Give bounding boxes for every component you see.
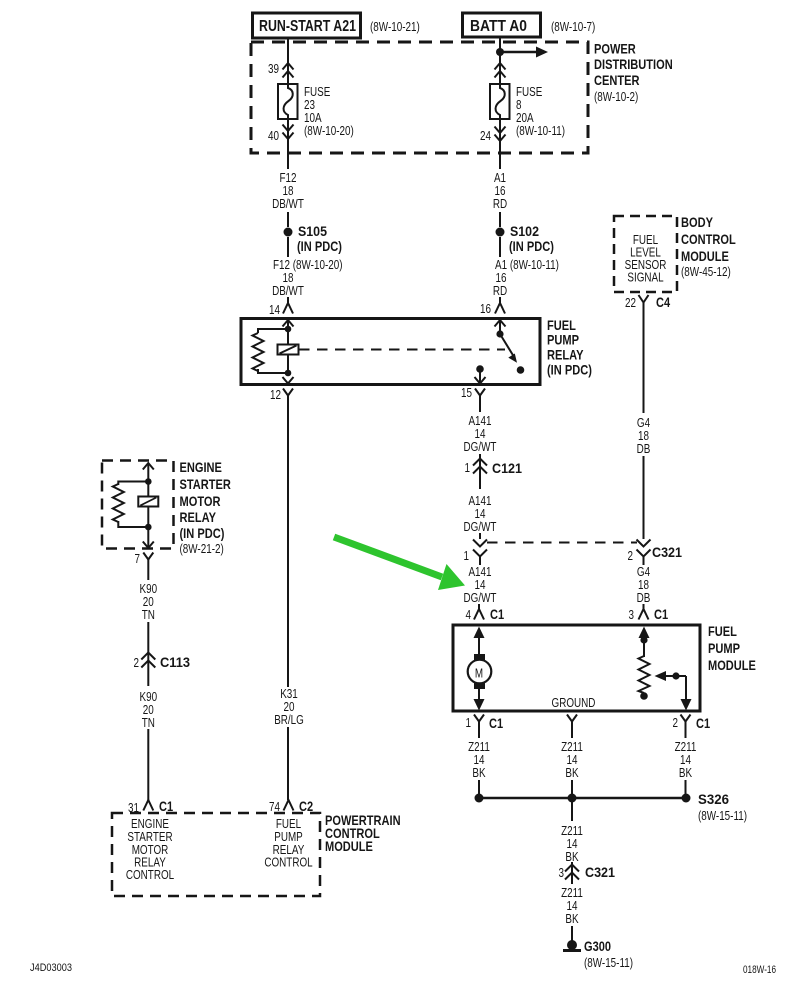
svg-text:20: 20	[284, 700, 295, 714]
svg-text:20: 20	[143, 703, 154, 717]
wire segment	[287, 212, 289, 227]
wire segment	[478, 780, 480, 798]
wire segment	[643, 456, 645, 539]
svg-text:14: 14	[474, 753, 485, 767]
svg-text:FUSE: FUSE	[304, 85, 330, 99]
svg-text:18: 18	[283, 271, 294, 285]
connector C321 pin 3	[559, 862, 616, 884]
wire label A1 16 RD	[493, 171, 507, 211]
svg-text:(8W-10-11): (8W-10-11)	[516, 124, 565, 138]
svg-text:22: 22	[625, 296, 636, 310]
svg-text:BK: BK	[565, 912, 579, 926]
pin 40 connector chevrons	[268, 125, 294, 144]
wire label G4 18 DB	[637, 565, 651, 605]
svg-text:(8W-21-2): (8W-21-2)	[180, 542, 224, 556]
label FUEL PUMP MODULE	[708, 623, 756, 673]
svg-text:BATT A0: BATT A0	[470, 18, 527, 35]
svg-text:ENGINE: ENGINE	[180, 459, 222, 475]
svg-text:C1: C1	[696, 715, 710, 731]
wire segment to ground	[571, 926, 573, 941]
center ground fork below module	[567, 715, 577, 732]
junction dot on BATT feed	[496, 48, 504, 56]
pin 15 chevron inside relay	[475, 377, 486, 384]
svg-text:F12 (8W-10-20): F12 (8W-10-20)	[273, 258, 343, 272]
pin 1 fork below module	[466, 715, 504, 732]
wire label K90 20 TN	[140, 582, 158, 622]
svg-text:23: 23	[304, 98, 315, 112]
svg-text:16: 16	[480, 302, 491, 316]
svg-text:10A: 10A	[304, 111, 322, 125]
wire label A141 14 DG/WT	[464, 565, 497, 605]
wire segment below splice	[571, 798, 573, 821]
wire K90 segment	[147, 568, 149, 580]
svg-text:16: 16	[495, 184, 506, 198]
svg-text:14: 14	[475, 507, 486, 521]
svg-text:1: 1	[464, 549, 470, 563]
svg-text:BR/LG: BR/LG	[274, 713, 304, 727]
svg-text:DB/WT: DB/WT	[272, 284, 304, 298]
svg-text:BK: BK	[472, 766, 486, 780]
relay switch arm with arrowhead	[500, 334, 517, 363]
svg-text:1: 1	[465, 461, 471, 475]
pin 4 fork above module	[466, 604, 505, 622]
svg-text:18: 18	[638, 578, 649, 592]
pin 15 dot	[476, 365, 484, 373]
svg-text:STARTER: STARTER	[180, 476, 231, 492]
svg-text:DB: DB	[637, 591, 651, 605]
wiper junction dot	[672, 672, 679, 679]
svg-text:FUEL: FUEL	[276, 817, 301, 831]
wire segment to pin 16	[499, 297, 501, 303]
wire segment	[685, 780, 687, 798]
junction dot bottom	[145, 524, 152, 531]
label ENGINE STARTER MOTOR RELAY CONTROL	[126, 817, 174, 882]
svg-text:DISTRIBUTION: DISTRIBUTION	[594, 56, 673, 72]
junction dot center	[568, 794, 577, 803]
svg-text:(8W-10-2): (8W-10-2)	[594, 90, 638, 104]
label BODY CONTROL MODULE	[681, 214, 736, 279]
fuel pump module box	[453, 625, 700, 711]
green annotation arrow	[334, 537, 465, 590]
pin 16 connector fork	[480, 302, 505, 316]
relay coil branch wire	[287, 320, 289, 373]
relay resistor (parallel with coil)	[253, 329, 289, 373]
svg-text:Z211: Z211	[675, 740, 697, 754]
svg-text:20: 20	[143, 595, 154, 609]
wire segment	[479, 533, 481, 539]
svg-text:(8W-15-11): (8W-15-11)	[698, 809, 747, 823]
wire segment to pin 31	[147, 729, 149, 800]
relay switch pivot dot	[496, 330, 503, 337]
wire label G4 18 DB	[637, 416, 651, 456]
svg-text:BK: BK	[679, 766, 693, 780]
svg-text:C1: C1	[489, 715, 503, 731]
svg-text:C321: C321	[652, 544, 682, 560]
svg-text:(8W-15-11): (8W-15-11)	[584, 956, 633, 970]
sensor wiper arrow	[655, 671, 687, 681]
svg-text:8: 8	[516, 98, 522, 112]
svg-text:A1 (8W-10-11): A1 (8W-10-11)	[495, 258, 559, 272]
connector C321 pin 2	[628, 540, 683, 566]
svg-text:MOTOR: MOTOR	[180, 493, 221, 509]
svg-text:RD: RD	[493, 284, 507, 298]
svg-text:DB: DB	[637, 442, 651, 456]
svg-text:14: 14	[475, 427, 486, 441]
wire segment	[147, 622, 149, 686]
wire label Z211 14 BK (left)	[468, 740, 490, 780]
svg-text:FUEL: FUEL	[708, 623, 737, 639]
svg-text:C113: C113	[160, 654, 190, 670]
svg-text:RD: RD	[493, 197, 507, 211]
svg-text:(8W-10-20): (8W-10-20)	[304, 124, 354, 138]
fuel pump motor M1	[468, 654, 492, 689]
wire segment	[287, 237, 289, 257]
svg-text:STARTER: STARTER	[127, 830, 172, 844]
wire segment right Z211	[685, 731, 687, 738]
svg-text:BK: BK	[565, 850, 579, 864]
svg-text:16: 16	[496, 271, 507, 285]
BATT feed connector chevrons	[495, 63, 506, 78]
pin 39 connector chevrons	[268, 62, 294, 78]
engine starter motor relay dashed box	[102, 461, 174, 549]
svg-text:TN: TN	[142, 608, 155, 622]
starter relay coil branch wire	[147, 463, 149, 527]
splice S105	[284, 223, 342, 254]
fuse 23	[278, 84, 298, 119]
svg-text:18: 18	[638, 429, 649, 443]
label FUEL LEVEL SENSOR SIGNAL	[625, 233, 667, 285]
svg-text:Z211: Z211	[561, 824, 583, 838]
dashed actuator line	[299, 349, 505, 351]
wire label Z211 14 BK (right)	[675, 740, 697, 780]
svg-text:BODY: BODY	[681, 214, 714, 230]
wiper return wire with down arrow	[681, 676, 692, 711]
wire from RUN-START A21 into PDC	[287, 38, 289, 84]
svg-text:3: 3	[559, 866, 565, 880]
svg-text:2: 2	[628, 549, 634, 563]
svg-text:(8W-10-7): (8W-10-7)	[551, 20, 595, 34]
svg-text:J4D03003: J4D03003	[30, 962, 72, 974]
ground bus wire	[479, 797, 686, 800]
svg-text:F12: F12	[280, 171, 297, 185]
svg-text:RELAY: RELAY	[180, 509, 217, 525]
pin 14 connector fork	[269, 303, 293, 317]
pin 14 chevron inside relay	[283, 320, 294, 327]
svg-text:40: 40	[268, 129, 279, 143]
svg-text:Z211: Z211	[561, 740, 583, 754]
starter relay resistor	[113, 482, 149, 528]
junction dot left	[475, 794, 484, 803]
svg-text:15: 15	[461, 386, 472, 400]
svg-text:PUMP: PUMP	[274, 830, 303, 844]
svg-text:(8W-10-21): (8W-10-21)	[370, 20, 420, 34]
svg-text:3: 3	[629, 608, 635, 622]
svg-text:MODULE: MODULE	[681, 248, 729, 264]
powertrain control module dashed box	[112, 813, 320, 896]
svg-text:2: 2	[673, 716, 679, 730]
svg-text:(IN PDC): (IN PDC)	[509, 238, 554, 254]
svg-text:DG/WT: DG/WT	[464, 591, 497, 605]
wire from BATT A0 into PDC	[499, 36, 501, 84]
body control module dashed box	[614, 216, 677, 292]
power distribution center dashed box	[251, 42, 588, 153]
wire segment	[499, 237, 501, 257]
dashed connector line C321	[487, 542, 637, 544]
svg-text:S326: S326	[698, 791, 729, 807]
label ENGINE STARTER MOTOR RELAY (IN PDC) (8W-21-2)	[180, 459, 231, 556]
wire label F12 18 DB/WT	[272, 171, 304, 211]
pin 7 fork below relay	[135, 552, 154, 568]
svg-text:S105: S105	[298, 223, 327, 239]
svg-text:(IN PDC): (IN PDC)	[180, 525, 225, 541]
label FUEL PUMP RELAY CONTROL	[264, 817, 312, 870]
svg-text:CONTROL: CONTROL	[681, 231, 736, 247]
svg-text:GROUND: GROUND	[552, 696, 596, 710]
label FUSE 23 10A (8W-10-20)	[304, 85, 354, 138]
svg-text:2: 2	[134, 656, 140, 670]
svg-text:7: 7	[135, 552, 141, 566]
svg-text:K31: K31	[280, 687, 298, 701]
pump feed wire with up arrow	[474, 627, 485, 655]
wire label Z211 14 BK	[561, 824, 583, 864]
svg-text:A141: A141	[468, 565, 491, 579]
wire A141 from pin 15 down	[479, 404, 481, 412]
wire label Z211 14 BK	[561, 886, 583, 926]
connector C121 pin 1	[465, 459, 523, 477]
svg-text:C1: C1	[159, 798, 173, 814]
splice S326	[682, 791, 748, 823]
svg-text:A141: A141	[468, 414, 491, 428]
svg-text:(8W-45-12): (8W-45-12)	[681, 265, 731, 279]
pin 3 fork above module	[629, 604, 669, 622]
wire segment	[499, 212, 501, 227]
wire G4 from pin 22 down	[643, 311, 645, 413]
starter relay coil symbol	[138, 497, 158, 507]
wire segment to pin 74	[287, 727, 289, 800]
svg-text:TN: TN	[142, 716, 155, 730]
connector C113 pin 2	[134, 653, 191, 671]
svg-text:DG/WT: DG/WT	[464, 520, 497, 534]
starter relay feed chevron	[143, 463, 154, 470]
svg-text:C1: C1	[490, 606, 504, 622]
fuse 8	[490, 84, 510, 119]
wire label A1 (8W-10-11) 16 RD	[493, 258, 559, 298]
svg-text:24: 24	[480, 129, 491, 143]
svg-text:RUN-START A21: RUN-START A21	[259, 18, 356, 35]
svg-text:(IN PDC): (IN PDC)	[547, 362, 592, 378]
svg-text:18: 18	[283, 184, 294, 198]
junction dot top	[145, 478, 152, 485]
splice S102	[496, 223, 554, 254]
svg-text:DG/WT: DG/WT	[464, 440, 497, 454]
arrow to right from BATT feed	[500, 47, 548, 58]
svg-text:14: 14	[269, 303, 280, 317]
wire segment to pin 14	[287, 297, 289, 303]
svg-text:MODULE: MODULE	[325, 838, 373, 854]
svg-text:C4: C4	[656, 294, 670, 310]
wire K31 from pin 12 down	[287, 404, 289, 687]
svg-text:S102: S102	[510, 223, 539, 239]
svg-text:018W-16: 018W-16	[743, 964, 776, 976]
svg-text:12: 12	[270, 388, 281, 402]
pin 24 connector chevrons	[480, 127, 506, 144]
pin 12 chevron inside relay	[283, 377, 294, 384]
pin 15 wire	[479, 369, 481, 384]
level sensor feed wire with up arrow	[639, 627, 650, 658]
pin 74 fork above PCM	[269, 798, 313, 814]
relay switch contact dot	[517, 366, 525, 374]
svg-text:4: 4	[466, 608, 472, 622]
svg-text:39: 39	[268, 62, 279, 76]
pin 2 fork below module	[673, 715, 711, 732]
pump return wire with down arrow	[474, 689, 485, 711]
wire label A141 14 DG/WT	[464, 494, 497, 534]
wire F12 segment below PDC	[287, 119, 289, 169]
junction dot top of coil	[285, 326, 292, 333]
wire segment left Z211	[478, 731, 480, 738]
wire label K31 20 BR/LG	[274, 687, 304, 727]
svg-text:DB/WT: DB/WT	[272, 197, 304, 211]
wire segment center Z211	[571, 731, 573, 738]
svg-text:PUMP: PUMP	[708, 640, 740, 656]
fuel level sensor resistor	[639, 656, 650, 693]
sensor bottom dot	[640, 692, 648, 700]
ground G300	[563, 938, 633, 970]
pin 31 fork above PCM	[128, 798, 173, 815]
svg-text:PUMP: PUMP	[547, 332, 579, 348]
wire label K90 20 TN	[140, 690, 158, 730]
pin 12 fork below relay	[270, 388, 293, 404]
svg-text:1: 1	[466, 716, 472, 730]
svg-text:14: 14	[680, 753, 691, 767]
wire segment	[479, 454, 481, 489]
junction dot bottom of coil	[285, 370, 292, 377]
junction dot on sensor feed	[640, 636, 647, 643]
label FUSE 8 20A (8W-10-11)	[516, 85, 565, 138]
relay switch common wire	[499, 320, 501, 334]
svg-text:(IN PDC): (IN PDC)	[297, 238, 342, 254]
wire label F12 (8W-10-20) 18 DB/WT	[272, 258, 342, 298]
svg-text:14: 14	[567, 899, 578, 913]
terminal box RUN-START A21	[253, 13, 361, 38]
pin 16 chevron inside relay	[495, 320, 506, 327]
svg-text:ENGINE: ENGINE	[131, 817, 169, 831]
svg-text:CENTER: CENTER	[594, 72, 640, 88]
svg-text:M: M	[475, 667, 483, 681]
wire A1 segment below PDC	[499, 119, 501, 169]
svg-text:Z211: Z211	[561, 886, 583, 900]
svg-text:C2: C2	[299, 798, 313, 814]
fuel pump relay box	[241, 319, 540, 385]
svg-text:14: 14	[475, 578, 486, 592]
svg-text:K90: K90	[140, 582, 158, 596]
svg-text:CONTROL: CONTROL	[264, 856, 312, 870]
svg-text:G4: G4	[637, 565, 650, 579]
relay coil symbol	[278, 345, 299, 355]
svg-text:FUSE: FUSE	[516, 85, 542, 99]
pin 22 fork below BCM	[625, 294, 670, 311]
svg-text:CONTROL: CONTROL	[126, 868, 174, 882]
wire label Z211 14 BK (center)	[561, 740, 583, 780]
svg-text:14: 14	[567, 837, 578, 851]
terminal box BATT A0	[463, 13, 541, 37]
svg-text:A1: A1	[494, 171, 506, 185]
svg-text:14: 14	[567, 753, 578, 767]
label POWERTRAIN CONTROL MODULE	[325, 812, 401, 854]
svg-text:K90: K90	[140, 690, 158, 704]
svg-text:C321: C321	[585, 864, 615, 880]
svg-text:G4: G4	[637, 416, 650, 430]
svg-text:20A: 20A	[516, 111, 534, 125]
wire label A141 14 DG/WT	[464, 414, 497, 454]
label POWER DISTRIBUTION CENTER	[594, 41, 673, 105]
wire segment	[571, 780, 573, 798]
svg-text:BK: BK	[565, 766, 579, 780]
label FUEL PUMP RELAY (IN PDC)	[547, 317, 592, 378]
svg-text:MODULE: MODULE	[708, 657, 756, 673]
starter relay output chevron	[143, 527, 154, 548]
svg-text:RELAY: RELAY	[547, 347, 584, 363]
svg-text:C121: C121	[492, 460, 522, 476]
svg-text:Z211: Z211	[468, 740, 490, 754]
svg-text:SIGNAL: SIGNAL	[627, 271, 663, 285]
svg-text:A141: A141	[468, 494, 491, 508]
svg-text:G300: G300	[584, 938, 611, 954]
svg-text:POWER: POWER	[594, 41, 636, 57]
connector C321 pin 1	[464, 540, 488, 566]
pin 15 fork below relay	[461, 386, 485, 404]
svg-text:C1: C1	[654, 606, 668, 622]
